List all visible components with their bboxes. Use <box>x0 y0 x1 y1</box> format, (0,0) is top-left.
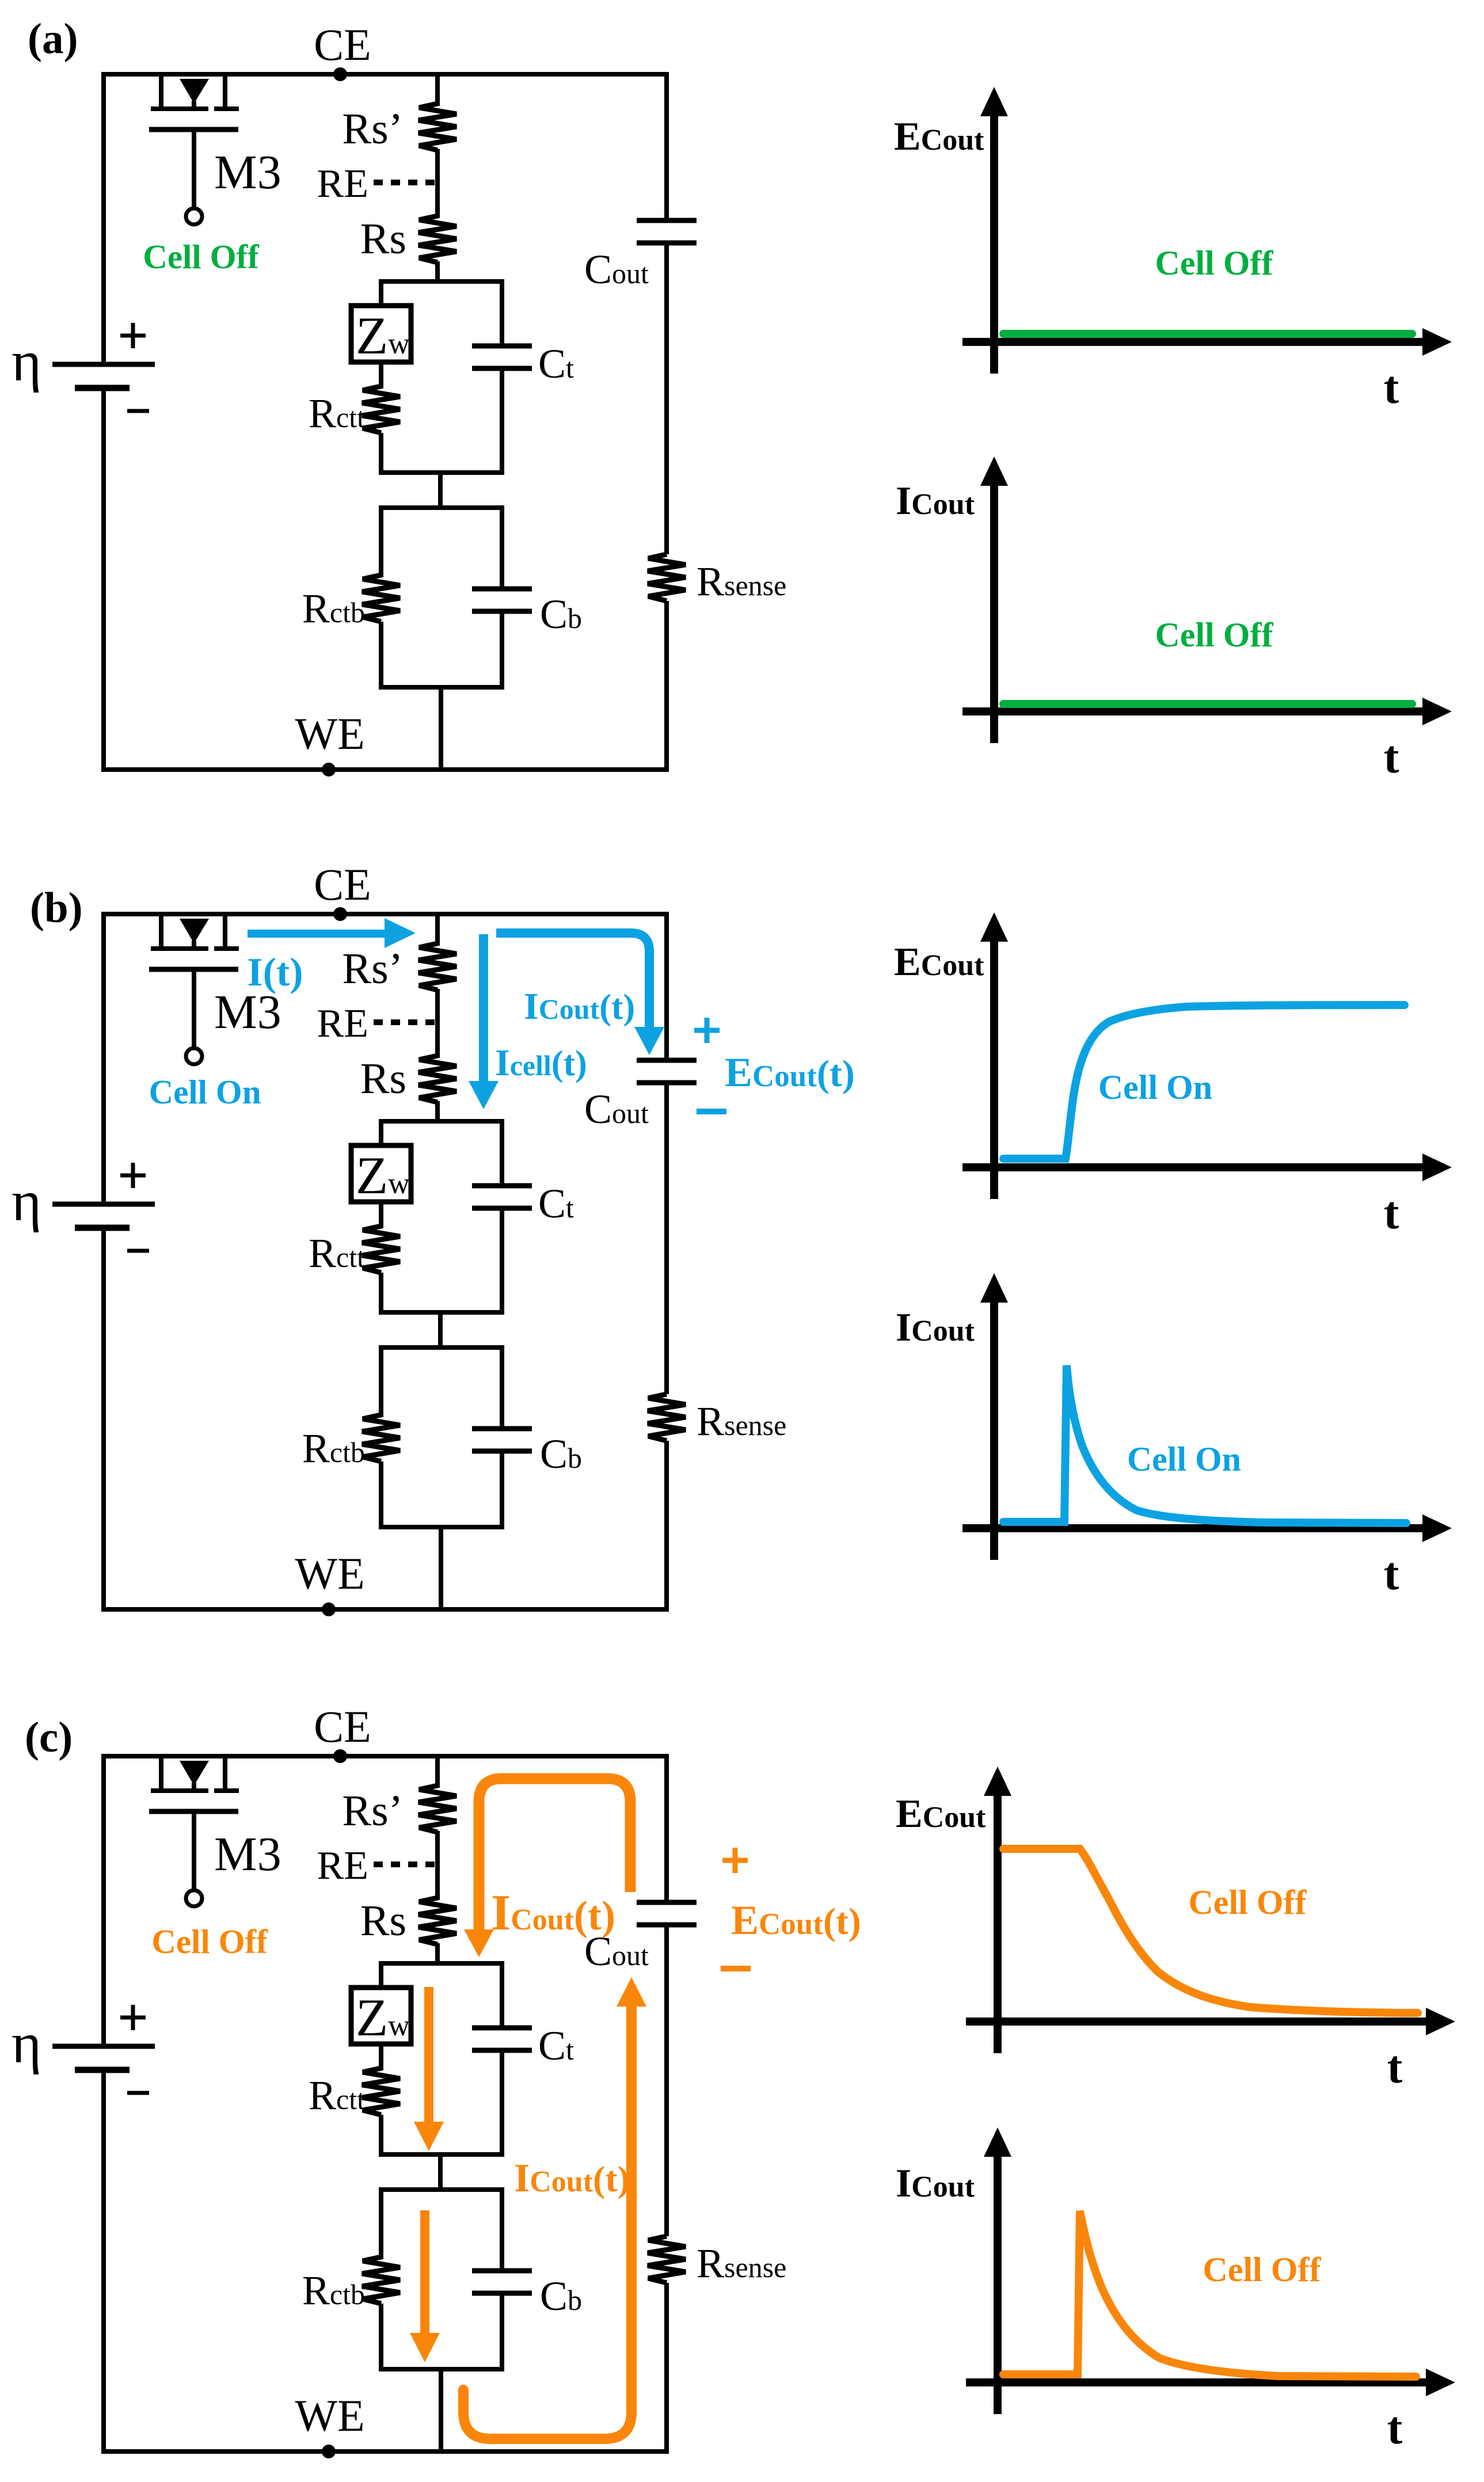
svg-text:t: t <box>1384 1549 1399 1600</box>
svg-text:t: t <box>1384 732 1399 783</box>
svg-text:Cell Off: Cell Off <box>1203 2251 1322 2289</box>
svg-text:t: t <box>1387 2042 1403 2093</box>
svg-text:t: t <box>1387 2403 1403 2454</box>
svg-text:(b): (b) <box>30 884 83 932</box>
svg-text:(c): (c) <box>25 1714 73 1761</box>
svg-text:Cell On: Cell On <box>1098 1068 1212 1106</box>
svg-text:Cell Off: Cell Off <box>1155 616 1274 654</box>
svg-text:t: t <box>1384 363 1399 413</box>
svg-text:Cell On: Cell On <box>1127 1440 1241 1478</box>
svg-text:Cell Off: Cell Off <box>143 238 260 276</box>
svg-text:t: t <box>1384 1188 1399 1239</box>
svg-text:Cell Off: Cell Off <box>1189 1883 1307 1921</box>
svg-text:I(t): I(t) <box>247 950 303 995</box>
svg-text:(a): (a) <box>28 15 78 63</box>
svg-text:Cell Off: Cell Off <box>1155 244 1274 282</box>
svg-text:Cell Off: Cell Off <box>151 1923 268 1961</box>
svg-text:Cell On: Cell On <box>149 1073 261 1111</box>
